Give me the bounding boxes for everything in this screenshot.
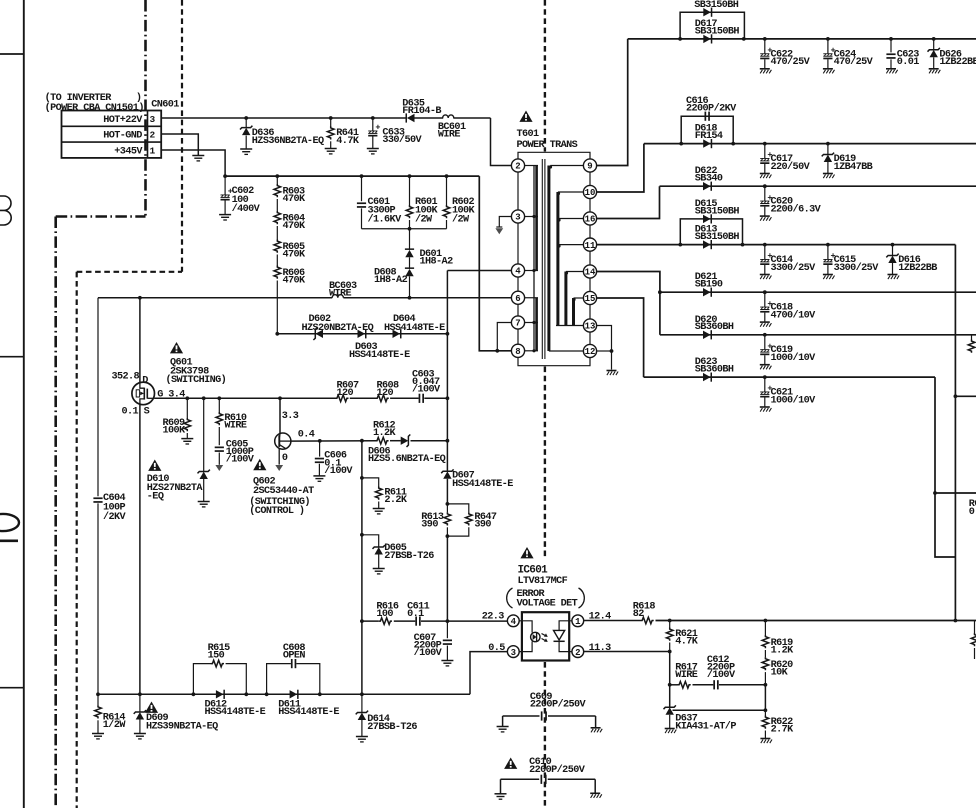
svg-text:4.7K: 4.7K bbox=[675, 637, 699, 648]
svg-text:470K: 470K bbox=[283, 250, 307, 261]
junction bbox=[445, 174, 449, 178]
svg-text:0.5: 0.5 bbox=[488, 643, 505, 654]
svg-text:VOLTAGE DET: VOLTAGE DET bbox=[517, 599, 578, 610]
junction bbox=[371, 116, 375, 120]
svg-text:WIRE: WIRE bbox=[675, 670, 698, 681]
svg-text:HOT-GND: HOT-GND bbox=[103, 131, 142, 142]
junction bbox=[360, 692, 364, 696]
jumper BC603 bbox=[332, 295, 343, 298]
resistor R607 bbox=[335, 395, 348, 402]
ground bbox=[313, 475, 325, 477]
T601 pin stubs left bbox=[525, 165, 538, 167]
diode pair D617 loop bbox=[680, 12, 744, 39]
diode D604 bbox=[393, 330, 401, 338]
T601 pin 2 bbox=[511, 159, 524, 172]
diode D617a bbox=[703, 8, 711, 16]
resistor R618 bbox=[641, 617, 654, 624]
svg-text:470K: 470K bbox=[283, 276, 307, 287]
svg-text:27BSB-T26: 27BSB-T26 bbox=[367, 722, 417, 733]
svg-text:8: 8 bbox=[515, 347, 520, 357]
svg-text:1.2K: 1.2K bbox=[373, 428, 397, 439]
svg-text:3300/25V: 3300/25V bbox=[771, 262, 817, 274]
svg-text:13: 13 bbox=[585, 322, 596, 332]
svg-text:1/2W: 1/2W bbox=[103, 719, 127, 731]
T601 pin 9 bbox=[583, 159, 596, 172]
ground bbox=[497, 726, 509, 728]
svg-text:150: 150 bbox=[208, 650, 225, 661]
svg-text:0.1: 0.1 bbox=[969, 507, 976, 518]
ground bbox=[181, 438, 193, 440]
svg-text:HSS4148TE-E: HSS4148TE-E bbox=[452, 479, 513, 490]
svg-text:4700/10V: 4700/10V bbox=[771, 309, 817, 321]
T601 winding bar upper bbox=[535, 166, 538, 271]
svg-text:11: 11 bbox=[585, 241, 596, 251]
zener D606 bbox=[401, 437, 409, 445]
ground bbox=[760, 321, 770, 323]
IC601 box bbox=[522, 612, 569, 660]
junction bbox=[138, 296, 142, 300]
svg-text:SB340: SB340 bbox=[695, 174, 723, 185]
svg-text:/100V: /100V bbox=[324, 465, 353, 477]
resistor R608 bbox=[376, 395, 389, 402]
IC601 light arrows bbox=[542, 634, 547, 637]
junction bbox=[495, 349, 499, 353]
svg-text:22.3: 22.3 bbox=[482, 611, 505, 622]
svg-text:HOT+22V: HOT+22V bbox=[103, 115, 143, 126]
svg-text:KIA431-AT/P: KIA431-AT/P bbox=[675, 721, 736, 733]
wire bbox=[276, 226, 278, 240]
diode D608 bbox=[405, 269, 413, 276]
wire bbox=[276, 255, 278, 266]
resistor R621 bbox=[669, 621, 671, 628]
zener D609 bbox=[139, 694, 141, 711]
svg-text:WIRE: WIRE bbox=[224, 420, 247, 431]
svg-text:9: 9 bbox=[587, 162, 592, 172]
isolation dashed line segment bottom bbox=[544, 662, 546, 808]
warning C610 bbox=[504, 758, 517, 769]
capacitor C621 bbox=[764, 377, 766, 392]
resistor R617 bbox=[678, 682, 691, 689]
svg-text:+: + bbox=[375, 123, 380, 133]
frame tick 1 bbox=[0, 53, 24, 55]
wire bbox=[394, 620, 416, 622]
junction bbox=[763, 142, 767, 146]
diode D601 bbox=[409, 229, 411, 250]
svg-text:HSS4148TE-E: HSS4148TE-E bbox=[384, 323, 445, 334]
T601 winding 14 bar bbox=[564, 272, 567, 326]
rail row6 bbox=[660, 334, 976, 336]
junction bbox=[954, 394, 958, 398]
zone label 10 (clipped) bbox=[0, 514, 19, 531]
rail row3 bbox=[660, 185, 976, 187]
wire C604 branch bbox=[97, 298, 99, 496]
wire +345V bus bbox=[225, 175, 479, 177]
wire row7 down bbox=[935, 377, 955, 557]
capacitor C612 bbox=[713, 680, 715, 689]
capacitor C606 bbox=[319, 441, 321, 457]
ground bbox=[373, 508, 385, 510]
junction bbox=[446, 396, 450, 400]
capacitor C614 bbox=[764, 245, 766, 260]
svg-text:HZS5.6NB2TA-EQ: HZS5.6NB2TA-EQ bbox=[368, 454, 446, 465]
ground bbox=[760, 738, 770, 740]
wire gate row bbox=[155, 397, 336, 399]
ground bbox=[886, 68, 896, 70]
ground bbox=[760, 274, 770, 276]
svg-text:/100V: /100V bbox=[412, 384, 441, 396]
junction bbox=[360, 619, 364, 623]
border frame line bbox=[23, 0, 25, 808]
wire bbox=[409, 257, 411, 269]
ground bbox=[607, 370, 617, 372]
IC601 LED bbox=[519, 621, 532, 633]
junction bbox=[668, 683, 672, 687]
rail row7 bbox=[644, 376, 935, 378]
svg-text:0.1: 0.1 bbox=[122, 407, 139, 418]
warning IC601 bbox=[520, 547, 533, 558]
jumper BC601 bbox=[443, 115, 454, 118]
ground arrow bbox=[215, 465, 223, 471]
isolation dashed line segment middle bbox=[544, 367, 546, 559]
IC601 pin 2 bbox=[572, 646, 584, 658]
resistor edge feedback bbox=[974, 621, 976, 634]
rail row5 bbox=[660, 291, 976, 293]
zener D614 bbox=[361, 694, 363, 712]
transformer T601 warning bbox=[519, 111, 532, 122]
resistor R604 bbox=[274, 211, 281, 224]
capacitor C605 bbox=[218, 427, 220, 445]
junction bbox=[275, 332, 279, 336]
resistor R616 bbox=[379, 618, 392, 625]
capacitor C623 bbox=[890, 39, 892, 53]
svg-text:100K: 100K bbox=[163, 426, 187, 437]
svg-text:11.3: 11.3 bbox=[589, 643, 612, 654]
svg-text:4: 4 bbox=[511, 617, 517, 627]
junction bbox=[329, 116, 333, 120]
capacitor C611 bbox=[415, 617, 417, 626]
snubber C616 loop bbox=[681, 116, 733, 143]
svg-text:12: 12 bbox=[585, 347, 596, 357]
wire branch R611/D605 bbox=[361, 441, 363, 695]
svg-text:/2W: /2W bbox=[415, 213, 433, 225]
svg-text:HSS4148TE-E: HSS4148TE-E bbox=[205, 707, 266, 718]
ground bbox=[192, 155, 204, 157]
zener D619 bbox=[827, 144, 829, 154]
warning Q602 bbox=[253, 459, 266, 470]
svg-text:CN601: CN601 bbox=[151, 99, 179, 110]
rail row2 bbox=[644, 143, 976, 145]
resistor R614 bbox=[97, 694, 99, 705]
svg-text:1000/10V: 1000/10V bbox=[771, 352, 817, 364]
svg-text:FR154: FR154 bbox=[695, 131, 723, 142]
svg-text:6: 6 bbox=[515, 294, 520, 304]
wire Q601 drain bbox=[139, 298, 141, 383]
wire bbox=[424, 397, 447, 399]
T601 right pin links bbox=[589, 172, 591, 185]
junction bbox=[763, 243, 767, 247]
T601 pin 12 bbox=[583, 344, 596, 357]
svg-text:470/25V: 470/25V bbox=[771, 56, 811, 68]
svg-text:10K: 10K bbox=[771, 668, 789, 679]
svg-text:7: 7 bbox=[515, 319, 520, 329]
svg-text:SB360BH: SB360BH bbox=[695, 365, 734, 376]
junction bbox=[244, 692, 248, 696]
wire bbox=[276, 281, 278, 334]
junction bbox=[446, 332, 450, 336]
T601 frame top bbox=[518, 152, 590, 159]
svg-text:1.2K: 1.2K bbox=[771, 645, 795, 656]
resistor R622 bbox=[764, 710, 766, 715]
junction bbox=[764, 708, 768, 712]
svg-text:HZS39NB2TA-EQ: HZS39NB2TA-EQ bbox=[146, 721, 218, 732]
wire bbox=[390, 397, 419, 399]
capacitor C601 bbox=[361, 176, 363, 201]
T601 primary winding line bbox=[533, 166, 535, 352]
T601 frame bottom bbox=[518, 357, 590, 365]
svg-text:WIRE: WIRE bbox=[438, 130, 461, 141]
junction bbox=[932, 37, 936, 41]
rail +22V row bbox=[628, 38, 976, 40]
junction bbox=[360, 439, 364, 443]
ground bbox=[373, 568, 385, 570]
wire bbox=[446, 479, 448, 504]
wire pin14 feed down bbox=[659, 292, 661, 335]
svg-text:T601: T601 bbox=[517, 129, 540, 140]
junction bbox=[679, 142, 683, 146]
junction bbox=[742, 37, 746, 41]
junction bbox=[360, 533, 364, 537]
junction bbox=[446, 502, 450, 506]
resistor R641 bbox=[330, 118, 332, 127]
svg-text:HSS4148TE-E: HSS4148TE-E bbox=[278, 707, 339, 718]
capacitor C618 bbox=[764, 292, 766, 307]
svg-text:1ZB22BB: 1ZB22BB bbox=[898, 263, 937, 274]
capacitor C617 bbox=[764, 144, 766, 159]
wire stub off right bbox=[935, 492, 976, 494]
svg-text:(POWER CBA CN1501): (POWER CBA CN1501) bbox=[45, 102, 144, 114]
T601 pin 15 bbox=[583, 291, 596, 304]
wire base row bbox=[291, 440, 376, 442]
wire bbox=[611, 351, 613, 370]
svg-text:2: 2 bbox=[149, 130, 155, 141]
svg-text:1H8-A2: 1H8-A2 bbox=[420, 257, 454, 268]
diode D615 bbox=[703, 215, 711, 223]
T601 pin 11 bbox=[583, 238, 596, 251]
capacitor C619 bbox=[764, 335, 766, 350]
junction bbox=[360, 476, 364, 480]
wire bbox=[719, 684, 765, 686]
ground bbox=[760, 364, 770, 366]
diode D612 bbox=[216, 690, 224, 698]
capacitor C602 bbox=[224, 176, 226, 195]
capacitor C620 bbox=[764, 186, 766, 201]
svg-text:POWER TRANS: POWER TRANS bbox=[517, 140, 578, 151]
T601 pin 13 bbox=[583, 319, 596, 332]
svg-text:1: 1 bbox=[575, 617, 581, 627]
T601 pin 4 bbox=[511, 264, 524, 277]
wire pin1 row bbox=[584, 620, 641, 622]
diode D618 bbox=[703, 139, 711, 147]
junction bbox=[826, 37, 830, 41]
capacitor C616 bbox=[705, 112, 707, 121]
svg-text:1H8-A2: 1H8-A2 bbox=[374, 275, 408, 286]
ground bbox=[888, 274, 898, 276]
wire bottom bus bbox=[98, 693, 470, 695]
T601 pin14 wire bbox=[597, 272, 660, 293]
svg-text:3: 3 bbox=[149, 114, 155, 125]
svg-text:1000/10V: 1000/10V bbox=[771, 395, 817, 407]
ground bbox=[760, 406, 770, 408]
svg-text:2200P/2KV: 2200P/2KV bbox=[686, 103, 737, 115]
wire bbox=[409, 276, 411, 297]
frame tick 3 bbox=[0, 687, 24, 689]
junction bbox=[446, 619, 450, 623]
wire pin2 row bbox=[584, 651, 670, 653]
svg-text:120: 120 bbox=[337, 388, 354, 399]
svg-text:100: 100 bbox=[376, 609, 393, 620]
svg-text:HZS20NB2TA-EQ: HZS20NB2TA-EQ bbox=[302, 323, 374, 334]
capacitor C610 bbox=[501, 778, 540, 780]
svg-text:0.01: 0.01 bbox=[897, 57, 920, 68]
capacitor C604 bbox=[93, 497, 102, 499]
junction bbox=[318, 692, 322, 696]
junction bbox=[889, 37, 893, 41]
svg-text:LTV817MCF: LTV817MCF bbox=[518, 576, 568, 587]
T601 pin9 wire bbox=[597, 39, 628, 166]
T601 pin12 wire bbox=[597, 350, 612, 352]
svg-text:2200P/250V: 2200P/250V bbox=[529, 764, 586, 776]
svg-text:0: 0 bbox=[282, 453, 288, 464]
wire pin4 branch vertical bbox=[446, 271, 448, 471]
resistor edge row6 bbox=[971, 335, 973, 340]
inner dashed boundary vertical upper bbox=[181, 0, 183, 272]
IC601 pin 1 bbox=[572, 615, 584, 627]
capacitor C622 bbox=[764, 39, 766, 54]
resistor R602 bbox=[446, 176, 448, 205]
junction bbox=[954, 619, 958, 623]
svg-text:14: 14 bbox=[585, 268, 596, 278]
T601 pin 14 bbox=[583, 265, 596, 278]
svg-text:390: 390 bbox=[474, 520, 491, 531]
wire HOT-GND bbox=[161, 134, 198, 156]
junction bbox=[278, 396, 282, 400]
ground arrow bbox=[495, 228, 503, 234]
wire bbox=[656, 620, 976, 622]
zener D637 bbox=[666, 707, 674, 714]
ground bbox=[367, 148, 379, 150]
wire D602 row bbox=[277, 333, 447, 335]
T601 pin3 ground wire bbox=[499, 217, 511, 228]
resistor R610 bbox=[218, 398, 220, 412]
junction bbox=[763, 290, 767, 294]
diode D611 bbox=[290, 690, 298, 698]
T601 pin 3 bbox=[511, 210, 524, 223]
hot boundary dash-dot vertical left bbox=[54, 217, 57, 808]
svg-text:470K: 470K bbox=[283, 221, 307, 232]
svg-text:2: 2 bbox=[575, 648, 580, 658]
svg-text:2200/6.3V: 2200/6.3V bbox=[771, 203, 822, 215]
ground bbox=[325, 148, 337, 150]
hot boundary dash-dot vertical upper bbox=[144, 0, 147, 217]
T601 pin 10 bbox=[583, 185, 596, 198]
diode D613 bbox=[703, 240, 711, 248]
svg-text:(SWITCHING): (SWITCHING) bbox=[166, 374, 227, 386]
junction bbox=[192, 692, 196, 696]
ground bbox=[92, 733, 104, 735]
T601 winding 9-12 bar bbox=[547, 166, 550, 352]
resistor R611 bbox=[362, 478, 379, 487]
ground bbox=[591, 727, 601, 729]
junction bbox=[138, 692, 142, 696]
resistor R620 bbox=[764, 650, 766, 657]
resistor R613 bbox=[446, 504, 448, 512]
node bbox=[408, 227, 412, 231]
wire bbox=[764, 685, 766, 711]
junction bbox=[408, 174, 412, 178]
wire D637 ref row bbox=[673, 709, 766, 711]
diode D635 bbox=[407, 114, 415, 122]
T601 left pin links bbox=[517, 172, 519, 210]
diode D623 bbox=[703, 373, 711, 381]
junction bbox=[96, 692, 100, 696]
ground bbox=[240, 148, 252, 150]
diode D603 bbox=[358, 330, 366, 338]
T601 winding 15 bar bbox=[572, 298, 575, 326]
node +345V bus bbox=[223, 174, 227, 178]
svg-text:+345V: +345V bbox=[114, 146, 143, 157]
hot boundary dash-dot horizontal bbox=[56, 215, 146, 218]
resistor R612 bbox=[375, 437, 388, 444]
T601 pin13 wire bbox=[597, 326, 612, 352]
ground bbox=[219, 214, 231, 216]
svg-text:/2KV: /2KV bbox=[103, 511, 127, 523]
junction bbox=[731, 142, 735, 146]
zone label 3 (clipped) bbox=[0, 196, 11, 225]
junction bbox=[658, 290, 662, 294]
junction bbox=[678, 243, 682, 247]
svg-text:3.3: 3.3 bbox=[282, 411, 299, 422]
svg-text:/2W: /2W bbox=[452, 213, 470, 225]
junction bbox=[202, 396, 206, 400]
warning Q601 bbox=[170, 342, 183, 353]
svg-text:(CONTROL ): (CONTROL ) bbox=[249, 505, 304, 517]
svg-text:16: 16 bbox=[585, 215, 596, 225]
capacitor C603 bbox=[419, 394, 421, 403]
ground bbox=[441, 660, 453, 662]
junction bbox=[763, 333, 767, 337]
junction bbox=[763, 37, 767, 41]
wire snubber bottom bbox=[362, 228, 447, 230]
svg-text:1: 1 bbox=[149, 145, 155, 156]
svg-text:IC601: IC601 bbox=[518, 565, 549, 577]
resistor R601 bbox=[409, 176, 411, 205]
svg-text:/100V: /100V bbox=[707, 669, 736, 681]
zener D607 bbox=[443, 471, 451, 478]
ground bbox=[823, 173, 833, 175]
svg-text:2: 2 bbox=[515, 162, 520, 172]
svg-text:HZS36NB2TA-EQ: HZS36NB2TA-EQ bbox=[252, 136, 324, 147]
wire bbox=[421, 620, 507, 622]
wire +345V bbox=[161, 150, 225, 176]
inner dashed boundary vertical left bbox=[76, 272, 78, 808]
wire R616 row bbox=[362, 620, 379, 622]
transistor Q602 bbox=[279, 398, 281, 433]
junction bbox=[360, 174, 364, 178]
diode pair D615 loop bbox=[680, 219, 742, 245]
svg-text:4: 4 bbox=[515, 267, 521, 277]
ground bbox=[760, 68, 770, 70]
svg-text:SB3150BH: SB3150BH bbox=[695, 26, 740, 37]
